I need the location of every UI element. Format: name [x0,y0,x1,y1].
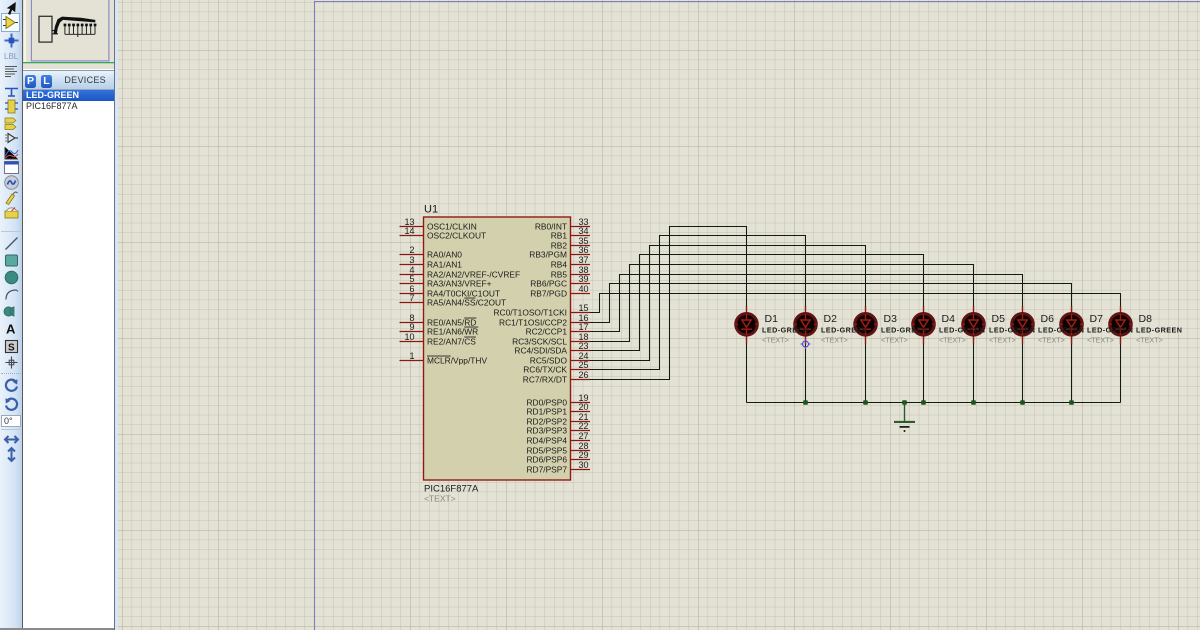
svg-text:17: 17 [579,322,589,332]
svg-text:RE2/AN7/CS: RE2/AN7/CS [427,337,476,347]
pin 18 RC3/SCK/SCL (right) [512,332,590,347]
pin 21 RD2/PSP2 (right) [527,412,591,427]
toolbar icon: rotate anticlockwise [3,396,20,413]
svg-text:RC4/SDI/SDA: RC4/SDI/SDA [514,346,567,356]
pin 38 RB5 (right) [551,265,590,280]
svg-text:RB4: RB4 [551,260,568,270]
svg-text:3: 3 [409,255,414,265]
L button [41,75,52,88]
svg-text:40: 40 [579,284,589,294]
pin 25 RC6/TX/CK (right) [523,360,590,375]
junction dot ground net [902,400,907,405]
svg-text:RA0/AN0: RA0/AN0 [427,250,462,260]
svg-text:D2: D2 [824,313,838,325]
svg-text:20: 20 [579,402,589,412]
svg-text:30: 30 [579,460,589,470]
svg-text:RA3/AN3/VREF+: RA3/AN3/VREF+ [427,279,492,289]
LED D3 LED-GREEN [854,306,877,345]
toolbar icon: device pin mode [3,130,20,147]
pin 9 RE1/AN6/WR (left) [400,322,479,337]
toolbar icon: tape recorder mode [3,159,20,176]
pin 4 RA2/AN2/VREF-/CVREF (left) [400,265,521,280]
minimap wire bundle [54,17,96,34]
svg-text:RE1/AN6/WR: RE1/AN6/WR [427,327,478,337]
svg-text:RC0/T1OSO/T1CKI: RC0/T1OSO/T1CKI [493,308,567,318]
pin 20 RD1/PSP1 (right) [527,402,591,417]
svg-text:10: 10 [404,332,414,342]
svg-text:D5: D5 [992,313,1006,325]
device list item PIC16F877A [23,101,115,112]
pin 36 RB3/PGM (right) [529,245,590,260]
toolbar icon: subcircuit mode [3,98,20,115]
svg-text:RB1: RB1 [551,231,568,241]
junction dot D2 net [803,400,808,405]
svg-text:LED-GREEN: LED-GREEN [821,326,867,335]
svg-text:1: 1 [409,351,414,361]
toolbar icon: 2D circle tool [3,269,20,286]
toolbar icon: 2D line tool [3,235,20,252]
LED D8 LED-GREEN [1109,306,1132,345]
wire net RC3 to LED D5 [590,265,974,342]
svg-text:RC6/TX/CK: RC6/TX/CK [523,365,567,375]
toolbar icon: rotate clockwise [3,377,20,394]
pin 40 RB7/PGD (right) [530,284,590,299]
pin 37 RB4 (right) [551,255,590,270]
svg-text:OSC2/CLKOUT: OSC2/CLKOUT [427,231,486,241]
toolbar icon: selection arrow [3,1,20,18]
toolbar icon: wire label mode [3,48,20,65]
toolbar icon: 2D text tool [3,320,20,337]
pin 8 RE0/AN5/RD (left) [400,313,477,328]
pin 13 OSC1/CLKIN (left) [400,217,477,232]
svg-text:LED-GREEN: LED-GREEN [1038,326,1084,335]
label D5 [989,313,1035,344]
devices header [23,70,115,90]
svg-text:RC7/RX/DT: RC7/RX/DT [523,375,567,385]
LED D2 LED-GREEN [794,306,817,345]
svg-text:RB7/PGD: RB7/PGD [530,289,567,299]
svg-text:23: 23 [579,341,589,351]
svg-text:36: 36 [579,245,589,255]
junction dot D7 net [1069,400,1074,405]
wire LED D2 cathode to ground bus [805,344,807,403]
minimap LED columns [65,25,95,38]
svg-text:5: 5 [409,274,414,284]
ground [894,403,915,433]
svg-text:25: 25 [579,360,589,370]
device list item LED-GREEN (selected) [23,90,115,101]
pin 35 RB2 (right) [551,236,590,251]
junction dot D4 net [921,400,926,405]
svg-text:2: 2 [409,245,414,255]
wire ground bus [747,402,1121,404]
svg-text:RD3/PSP3: RD3/PSP3 [527,426,568,436]
pin 14 OSC2/CLKOUT (left) [400,226,487,241]
toolbar icon: generator mode [3,174,20,191]
svg-text:14: 14 [404,226,414,236]
pin 24 RC5/SDO (right) [530,351,590,366]
svg-text:LED-GREEN: LED-GREEN [989,326,1035,335]
toolbar icon: 2D marker tool [3,354,20,371]
pin 33 RB0/INT (right) [535,217,590,232]
svg-text:RD7/PSP7: RD7/PSP7 [527,465,568,475]
svg-text:RD4/PSP4: RD4/PSP4 [527,436,568,446]
toolbar icon: mirror horizontal [3,431,20,448]
pin 22 RD3/PSP3 (right) [527,421,591,436]
toolbar icon: bus mode [3,83,20,100]
svg-text:LED-GREEN: LED-GREEN [762,326,808,335]
pin 39 RB6/PGC (right) [530,274,590,289]
svg-text:RD6/PSP6: RD6/PSP6 [527,455,568,465]
svg-text:D7: D7 [1090,313,1104,325]
svg-text:<TEXT>: <TEXT> [1038,335,1065,344]
toolbar icon: 2D arc tool [3,286,20,303]
minimap sheet border [31,0,109,61]
svg-text:RA1/AN1: RA1/AN1 [427,260,462,270]
svg-text:22: 22 [579,421,589,431]
toolbar icon: 2D closed path tool [3,303,20,320]
junction dot D3 net [863,400,868,405]
svg-text:D8: D8 [1139,313,1153,325]
P button [25,75,36,88]
minimap viewport line (green) [23,62,119,64]
svg-text:D4: D4 [942,313,956,325]
toolbar icon: voltage probe mode [3,189,20,206]
toolbar icon: rotation angle box [1,415,21,427]
wire LED D7 cathode to ground bus [1071,344,1073,403]
svg-text:RC2/CCP1: RC2/CCP1 [526,327,568,337]
pin 2 RA0/AN0 (left) [400,245,463,260]
label D2 [821,313,867,344]
LED D5 LED-GREEN [962,306,985,345]
pin 29 RD6/PSP6 (right) [527,450,591,465]
svg-text:LED-GREEN: LED-GREEN [1087,326,1133,335]
junction dot D6 net [1020,400,1025,405]
toolbar icon: graph mode [3,145,20,162]
toolbar icon: component mode (selected) [1,13,20,32]
svg-text:D3: D3 [884,313,898,325]
wire LED D5 cathode to ground bus [973,344,975,403]
svg-text:RB3/PGM: RB3/PGM [529,250,567,260]
svg-text:<TEXT>: <TEXT> [821,335,848,344]
LED D4 LED-GREEN [912,306,935,345]
pin 5 RA3/AN3/VREF+ (left) [400,274,492,289]
svg-text:26: 26 [579,370,589,380]
LED D7 LED-GREEN [1060,306,1083,345]
wire net RC4 to LED D4 [590,255,924,351]
pin 27 RD4/PSP4 (right) [527,431,591,446]
wire net RC6 to LED D2 [590,236,806,370]
svg-text:<TEXT>: <TEXT> [1136,335,1163,344]
svg-text:37: 37 [579,255,589,265]
label D1 [762,313,808,344]
sheet border [315,2,1200,630]
svg-text:7: 7 [409,293,414,303]
object selector panel [22,0,114,630]
pin 6 RA4/T0CKI/C1OUT (left) [400,284,501,299]
toolbar icon: 2D box tool [3,252,20,269]
toolbar icon: terminals mode [3,115,20,132]
wire LED D4 cathode to ground bus [923,344,925,403]
svg-text:<TEXT>: <TEXT> [424,494,456,504]
toolbar icon: mirror vertical [3,446,20,463]
LED D1 LED-GREEN [735,306,758,345]
toolbar icon: text script mode [3,64,20,81]
LED D6 LED-GREEN [1011,306,1034,345]
wire net RC0 to LED D8 [590,294,1121,313]
svg-text:39: 39 [579,274,589,284]
toolbar icon: 2D symbol tool [3,338,20,355]
pin 10 RE2/AN7/CS (left) [400,332,477,347]
svg-text:9: 9 [409,322,414,332]
svg-text:<TEXT>: <TEXT> [762,335,789,344]
wire net RC2 to LED D6 [590,275,1023,332]
pin 26 RC7/RX/DT (right) [523,370,590,385]
svg-text:S: S [8,342,15,353]
label D4 [939,313,985,344]
label D6 [1038,313,1084,344]
svg-text:LED-GREEN: LED-GREEN [939,326,985,335]
origin marker (blue dashed cross) [801,339,811,349]
pin 1 MCLR/Vpp/THV (left) [400,351,488,366]
svg-text:D1: D1 [765,313,779,325]
svg-text:RA5/AN4/SS/C2OUT: RA5/AN4/SS/C2OUT [427,298,506,308]
toolbar icon: junction dot mode [3,32,20,49]
label D7 [1087,313,1133,344]
wire net RC5 to LED D3 [590,246,866,361]
svg-text:29: 29 [579,450,589,460]
overview minimap [23,0,119,69]
svg-text:<TEXT>: <TEXT> [939,335,966,344]
minimap chip U1 [39,16,52,42]
wire LED D8 cathode to ground bus [1120,344,1122,403]
svg-text:RD1/PSP1: RD1/PSP1 [527,407,568,417]
svg-text:LED-GREEN: LED-GREEN [881,326,927,335]
pin 7 RA5/AN4/SS/C2OUT (left) [400,293,507,308]
wire net RC1 to LED D7 [590,284,1072,323]
pin 34 RB1 (right) [551,226,590,241]
svg-text:LBL: LBL [4,52,19,61]
wire LED D3 cathode to ground bus [865,344,867,403]
pin 28 RD5/PSP5 (right) [527,441,591,456]
svg-text:RB6/PGC: RB6/PGC [530,279,567,289]
pin 16 RC1/T1OSI/CCP2 (right) [499,313,590,328]
wire net RC7 to LED D1 [590,227,747,380]
svg-text:34: 34 [579,226,589,236]
pin 15 RC0/T1OSO/T1CKI (right) [493,303,590,318]
pin 3 RA1/AN1 (left) [400,255,463,270]
svg-text:<TEXT>: <TEXT> [1087,335,1114,344]
svg-text:D6: D6 [1041,313,1055,325]
pin 19 RD0/PSP0 (right) [527,393,591,408]
svg-text:LED-GREEN: LED-GREEN [1136,326,1182,335]
svg-text:<TEXT>: <TEXT> [881,335,908,344]
label D8 [1136,313,1182,344]
toolbar icon: current probe mode [3,203,20,220]
svg-text:27: 27 [579,431,589,441]
svg-text:U1: U1 [424,204,438,216]
wire LED D1 cathode to ground bus [746,344,748,403]
wire LED D6 cathode to ground bus [1022,344,1024,403]
svg-text:MCLR/Vpp/THV: MCLR/Vpp/THV [427,356,487,366]
op-amp U1 chip body PIC16F877A [424,217,571,480]
left mode toolbar [0,0,22,630]
svg-text:15: 15 [579,303,589,313]
pin 23 RC4/SDI/SDA (right) [514,341,590,356]
svg-text:A: A [6,322,16,337]
label D3 [881,313,927,344]
junction dot D5 net [971,400,976,405]
pin 17 RC2/CCP1 (right) [526,322,590,337]
pin 30 RD7/PSP7 (right) [527,460,591,475]
svg-text:<TEXT>: <TEXT> [989,335,1016,344]
